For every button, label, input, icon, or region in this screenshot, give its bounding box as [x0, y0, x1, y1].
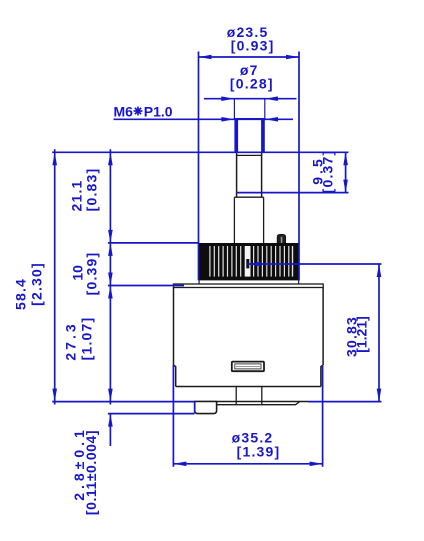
foot left side — [235, 387, 237, 405]
dia23.5 arrows — [199, 55, 212, 60]
M6 leader line — [114, 118, 294, 120]
2.8 dim tail — [109, 414, 111, 446]
2.8 arrow — [108, 414, 113, 427]
21.1/10/27.3 dim line — [109, 149, 111, 404]
M6 arrows — [221, 117, 234, 122]
tab blue edge — [194, 402, 196, 413]
2.8 bottom ext line — [108, 413, 195, 415]
body right step — [321, 365, 323, 387]
svg-text:P1.0: P1.0 — [144, 104, 173, 120]
58.4 arrows — [52, 152, 57, 165]
base plate bottom edge — [217, 402, 300, 405]
9.5 bottom ext line — [236, 192, 348, 194]
svg-text:[1.39]: [1.39] — [237, 444, 281, 460]
stem tip box — [234, 99, 264, 119]
svg-text:27.3: 27.3 — [63, 321, 79, 360]
svg-text:[2.30]: [2.30] — [29, 262, 45, 306]
svg-text:[0.93]: [0.93] — [231, 38, 275, 54]
dia35.2 dim line — [173, 463, 322, 465]
knurled ring (black block) — [199, 243, 300, 280]
svg-text:58.4: 58.4 — [13, 278, 29, 310]
bottom tab — [195, 402, 217, 414]
dim line diameter 23.5 — [199, 56, 300, 58]
bottom ext line right — [308, 401, 381, 403]
30.83 dim line — [378, 264, 380, 402]
spline box chamfer line — [237, 154, 262, 156]
knurl hatch white lines — [209, 246, 293, 277]
foot right side — [261, 387, 263, 405]
bump on knurl top — [277, 235, 285, 244]
mid stem shoulder — [234, 196, 263, 198]
dia7 arrows — [221, 96, 234, 101]
svg-text:[0.39]: [0.39] — [84, 252, 100, 296]
ext line knurl top — [108, 242, 199, 244]
58.4 dim line — [54, 149, 56, 404]
svg-text:[0.28]: [0.28] — [230, 76, 274, 92]
bottom ext line left — [52, 401, 194, 403]
thread section thick bars — [234, 119, 238, 153]
mid stem right side — [263, 197, 265, 243]
body left step — [174, 365, 176, 387]
10 arrows — [108, 243, 113, 256]
svg-text:21.1: 21.1 — [69, 179, 85, 211]
30.83 arrows — [377, 264, 382, 277]
30.83 leader arrow into knurl — [248, 262, 261, 267]
svg-text:[1.07]: [1.07] — [79, 317, 95, 361]
base plate top edge — [195, 401, 309, 403]
body top rim (double line) — [174, 284, 324, 288]
body bottom edge — [176, 386, 321, 388]
svg-text:[0.83]: [0.83] — [84, 168, 100, 212]
ext line left of dia23.5 — [198, 52, 200, 281]
dim line diameter 7 — [204, 98, 297, 100]
body upper left side — [173, 288, 175, 366]
svg-text:[1.21]: [1.21] — [354, 316, 370, 353]
shoulder / top ext line (58.4, 21.1, 9.5) — [52, 151, 348, 153]
svg-text:M6: M6 — [114, 104, 134, 120]
9.5 arrows — [343, 152, 348, 165]
svg-text:[0.37]: [0.37] — [320, 150, 336, 194]
slot window on body — [232, 362, 264, 372]
dia35.2 arrows — [173, 462, 186, 467]
knurl bottom corner ticks — [198, 280, 200, 284]
ext line knurl bottom — [108, 285, 184, 287]
dia35.2 left ext line — [172, 365, 174, 467]
arrowheads — [52, 55, 381, 466]
9.5 dim line — [345, 152, 347, 192]
black bar in center slot — [246, 259, 249, 268]
ext line right of dia23.5 — [298, 52, 300, 281]
center slot white — [245, 246, 251, 277]
27.3 arrows — [108, 286, 113, 299]
dia35.2 right ext line — [322, 365, 324, 467]
21.1 arrows — [108, 152, 113, 165]
spline box (upper stem section) — [237, 153, 262, 198]
mid stem left side — [233, 197, 235, 243]
svg-text:[0.11±0.004]: [0.11±0.004] — [83, 430, 99, 515]
30.83 top ext line — [248, 263, 382, 265]
body upper right side — [322, 288, 324, 366]
